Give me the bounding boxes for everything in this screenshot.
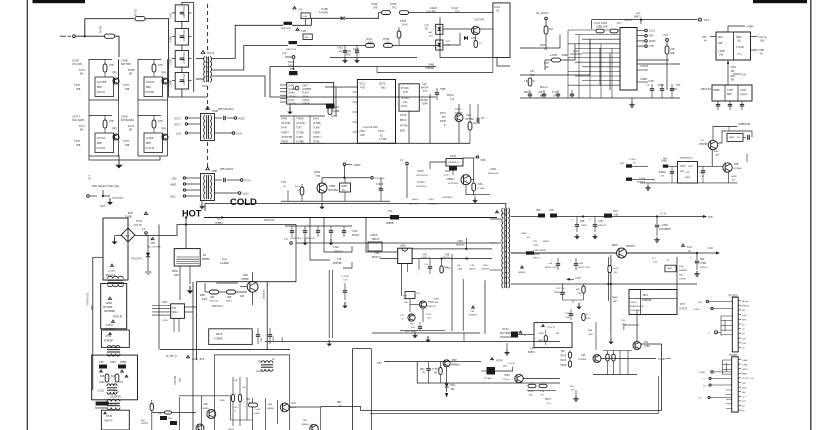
ic left network v5 bbox=[609, 53, 611, 90]
svg-text:BBB 4LBT: BBB 4LBT bbox=[281, 28, 292, 30]
transistor QF1 bbox=[317, 183, 339, 193]
bl labels2 bbox=[220, 400, 275, 415]
label PA8P bbox=[416, 170, 428, 177]
svg-text:BLPTBBB: BLPTBBB bbox=[405, 331, 415, 333]
svg-text:B4B6A: B4B6A bbox=[659, 171, 667, 174]
title block bar top-right bbox=[753, 0, 807, 3]
wire hot-cold corner bbox=[0, 0, 1, 1]
left rail bottom bbox=[91, 390, 100, 414]
M warn bbox=[681, 244, 692, 253]
svg-text:1TTB: 1TTB bbox=[432, 369, 438, 371]
bl horizontals bbox=[152, 396, 253, 420]
Q wire top bbox=[500, 335, 534, 338]
svg-text:A4C: A4C bbox=[435, 301, 440, 304]
svg-text:TBBBBBB BL: TBBBBBB BL bbox=[679, 158, 693, 160]
svg-text:NBPBBB 44: NBPBBB 44 bbox=[448, 162, 461, 164]
main H vrails bbox=[193, 282, 197, 430]
res L inner2 bbox=[432, 362, 442, 384]
cold box blob1 bbox=[99, 365, 126, 369]
svg-text:BB-BLC: BB-BLC bbox=[533, 258, 541, 260]
label GOLD small bbox=[113, 315, 123, 319]
svg-text:Tbd: Tbd bbox=[388, 210, 393, 213]
IC U401 box bbox=[620, 28, 637, 91]
svg-text:THBBT: THBBT bbox=[215, 222, 223, 225]
label R751 bbox=[134, 8, 138, 16]
gnd list1 bbox=[287, 104, 292, 114]
svg-text:APRL_BTB: APRL_BTB bbox=[192, 358, 205, 361]
svg-text:FUF1: FUF1 bbox=[494, 5, 501, 9]
P term L4BwP bbox=[693, 307, 732, 311]
svg-text:C4PB: C4PB bbox=[162, 320, 168, 322]
svg-text:4DB: 4DB bbox=[708, 216, 713, 219]
N label top bbox=[700, 88, 712, 91]
H lower box bbox=[209, 329, 253, 345]
small res pair q4 bbox=[474, 35, 482, 48]
svg-text:C1BB7: C1BB7 bbox=[640, 78, 648, 81]
relay labels bbox=[718, 36, 744, 57]
svg-text:DB2: DB2 bbox=[172, 177, 177, 180]
svg-text:1APJ: 1APJ bbox=[688, 165, 693, 168]
svg-text:C4T2T: C4T2T bbox=[72, 115, 80, 119]
fuse blob right2 bbox=[286, 41, 297, 51]
label PB4 bbox=[410, 324, 415, 330]
wire bl2 bbox=[0, 0, 1, 1]
svg-text:41V: 41V bbox=[742, 74, 747, 77]
svg-text:1BBB: 1BBB bbox=[581, 225, 587, 227]
core 1R bottom bbox=[256, 359, 275, 373]
K right tri bbox=[469, 306, 478, 317]
svg-text:TB4TBBA: TB4TBBA bbox=[328, 189, 339, 192]
M rail labels2 bbox=[612, 297, 618, 303]
terminal G top bbox=[475, 156, 487, 162]
svg-text:4BB: 4BB bbox=[718, 43, 723, 45]
U501 box bbox=[398, 245, 412, 264]
svg-text:B4B4B: B4B4B bbox=[469, 269, 476, 271]
svg-text:1R: 1R bbox=[258, 361, 261, 363]
cap stack right rail bbox=[182, 3, 194, 93]
svg-text:C457: C457 bbox=[169, 58, 173, 65]
bottom sub-box outline bbox=[214, 355, 290, 430]
svg-text:BBB: BBB bbox=[458, 269, 463, 271]
svg-text:H17D: H17D bbox=[378, 130, 385, 133]
svg-text:T4B: T4B bbox=[621, 320, 626, 322]
label 8411 bbox=[570, 50, 582, 54]
svg-text:14BPB: 14BPB bbox=[679, 279, 686, 281]
svg-text:L.B: L.B bbox=[524, 81, 528, 83]
svg-text:LBD: LBD bbox=[158, 413, 163, 415]
ground snubber bbox=[187, 286, 194, 294]
svg-text:BPPBBBBB: BPPBBBBB bbox=[95, 408, 108, 410]
svg-text:P7C: P7C bbox=[423, 90, 428, 93]
Q box mid bbox=[534, 323, 572, 348]
ground arrow cells bbox=[115, 155, 122, 168]
list1 labels col2 bbox=[302, 85, 312, 106]
list1 labels col1 bbox=[289, 85, 297, 106]
svg-text:4BBP: 4BBP bbox=[729, 137, 735, 139]
wire FU bottom stub bbox=[497, 58, 510, 66]
crb labels2 bbox=[401, 105, 408, 108]
label C7A1 K47B bbox=[594, 22, 608, 29]
label C4ZB right bbox=[488, 169, 499, 175]
BPC label bbox=[642, 294, 652, 302]
svg-text:Q2A: Q2A bbox=[112, 127, 117, 130]
wire VBT run bbox=[386, 361, 481, 363]
svg-text:AB2: AB2 bbox=[381, 87, 386, 90]
svg-text:BCBV: BCBV bbox=[528, 391, 534, 393]
transistor Q pump driver bbox=[593, 355, 601, 363]
svg-text:L1HE: L1HE bbox=[402, 25, 408, 27]
box2 caps below bbox=[716, 101, 744, 110]
terminal C18BP bbox=[343, 163, 361, 167]
relay col labels bbox=[730, 66, 737, 82]
label P44 bbox=[403, 299, 409, 305]
M gnd C4T bbox=[654, 237, 659, 242]
transistor Q44 bbox=[455, 114, 463, 122]
label LTBT bbox=[333, 258, 342, 265]
wire cell bus left bbox=[89, 59, 118, 115]
control box name bbox=[363, 125, 378, 129]
svg-text:BBBBB1: BBBBB1 bbox=[469, 315, 478, 317]
cold box labels bbox=[99, 376, 124, 384]
svg-text:40T AD: 40T AD bbox=[134, 224, 142, 227]
wire TPH1 left bot bbox=[196, 59, 204, 80]
svg-text:RT4B: RT4B bbox=[106, 415, 112, 418]
res D440 box bbox=[446, 159, 463, 167]
svg-text:S4BP: S4BP bbox=[521, 233, 527, 235]
svg-text:P4LLB4FB: P4LLB4FB bbox=[72, 119, 84, 122]
svg-text:78B4TH: 78B4TH bbox=[104, 421, 113, 423]
transistor bl2 bbox=[196, 424, 204, 430]
svg-text:R7B: R7B bbox=[109, 64, 114, 67]
label takam bbox=[409, 199, 439, 206]
svg-text:C4BB1A: C4BB1A bbox=[446, 178, 455, 181]
cap C9 left bbox=[148, 236, 161, 254]
wire F bottom bus bbox=[281, 201, 390, 209]
svg-text:C4BB: C4BB bbox=[329, 185, 336, 188]
J left col top bbox=[329, 269, 366, 271]
svg-text:B.BB: B.BB bbox=[565, 313, 570, 315]
IC right pin circles bbox=[637, 29, 647, 47]
wire R705 to cell bbox=[115, 36, 120, 57]
svg-text:4LB: 4LB bbox=[416, 293, 420, 295]
P header box lower bbox=[732, 357, 739, 412]
J left caps bbox=[342, 283, 347, 308]
diode box list2c bbox=[313, 118, 321, 144]
wire L mid down bbox=[446, 367, 448, 392]
relay right lead2 bbox=[751, 49, 765, 56]
svg-text:P44B: P44B bbox=[371, 3, 377, 6]
svg-text:4DR8: 4DR8 bbox=[649, 40, 656, 43]
svg-text:T.4B1: T.4B1 bbox=[730, 66, 737, 69]
transformer PHB1 box bbox=[201, 114, 215, 141]
svg-text:B4BP: B4BP bbox=[562, 54, 569, 57]
label W_IMP bbox=[166, 355, 177, 358]
svg-text:PBB 84LP: PBB 84LP bbox=[212, 306, 223, 308]
svg-text:(4TPB): (4TPB) bbox=[313, 122, 321, 125]
svg-text:C41B: C41B bbox=[740, 89, 746, 92]
label PHB1 bbox=[212, 109, 218, 113]
Q bottom dbl bus bbox=[361, 376, 662, 413]
wire U501 right mid bbox=[412, 257, 492, 259]
P pins right upper bbox=[738, 300, 750, 350]
label TAP left bbox=[162, 301, 168, 304]
label COLD bbox=[230, 197, 257, 208]
wire L bot right2 removed bbox=[0, 0, 1, 1]
svg-text:5T4B: 5T4B bbox=[333, 246, 339, 249]
transistor Q601 bbox=[612, 244, 635, 258]
svg-text:1M: 1M bbox=[496, 11, 499, 13]
wire standby top feed bbox=[85, 19, 134, 37]
label BHPA bbox=[447, 94, 455, 101]
M rails pair bbox=[608, 255, 611, 335]
label 1-W RC bbox=[424, 25, 429, 31]
label GET2NF bbox=[474, 19, 484, 22]
svg-text:C1 BLB: C1 BLB bbox=[507, 363, 515, 365]
Q left low wires bbox=[523, 378, 560, 380]
svg-text:JT44A: JT44A bbox=[289, 95, 297, 98]
svg-text:A7B1A: A7B1A bbox=[700, 266, 707, 269]
svg-text:Q2A: Q2A bbox=[161, 127, 166, 130]
svg-text:4BB: 4BB bbox=[734, 164, 739, 166]
svg-text:1e-: 1e- bbox=[701, 140, 705, 142]
svg-text:BC: BC bbox=[742, 406, 745, 408]
svg-text:4PT1: 4PT1 bbox=[680, 304, 686, 306]
cold box res1 bbox=[105, 374, 119, 382]
svg-text:L4BTBBBT: L4BTBBBT bbox=[442, 197, 454, 199]
svg-text:B4BBB: B4BBB bbox=[386, 223, 394, 225]
T601 left stubs bbox=[490, 219, 501, 270]
svg-text:1BB: 1BB bbox=[566, 317, 571, 319]
transformer PHB1 core bbox=[204, 115, 212, 139]
svg-text:B4B: B4B bbox=[400, 130, 405, 133]
H lower caps bbox=[256, 328, 272, 344]
crb chain stub bbox=[408, 111, 410, 143]
res R4T1 bbox=[550, 54, 569, 62]
svg-text:L4TBP: L4TBP bbox=[550, 54, 558, 57]
svg-text:BTBBTB: BTBBTB bbox=[427, 306, 436, 308]
svg-text:D440: D440 bbox=[450, 155, 457, 158]
svg-text:1TB: 1TB bbox=[337, 258, 342, 261]
label D448 PHRLPR bbox=[319, 8, 328, 14]
label TRLPBRBT bbox=[659, 225, 672, 231]
svg-text:BBP1: BBP1 bbox=[612, 244, 619, 247]
wire L top long bbox=[290, 337, 347, 339]
svg-text:C458: C458 bbox=[169, 80, 173, 87]
svg-text:LDL: LDL bbox=[303, 420, 308, 422]
svg-text:JC27O4: JC27O4 bbox=[97, 137, 106, 140]
res L inner1 bbox=[420, 362, 431, 384]
wire mains second run bbox=[300, 44, 366, 46]
svg-text:BBB: BBB bbox=[97, 143, 102, 145]
label CHLS bbox=[637, 65, 648, 70]
svg-text:R4B: R4B bbox=[588, 330, 593, 332]
M plus caps bbox=[571, 218, 587, 232]
svg-text:D1B: D1B bbox=[471, 38, 476, 40]
svg-text:PH7B2: PH7B2 bbox=[400, 124, 409, 127]
svg-text:B4HB4NB2: B4HB4NB2 bbox=[121, 119, 134, 122]
svg-text:1 TB1: 1 TB1 bbox=[501, 214, 508, 216]
svg-text:84TT: 84TT bbox=[440, 112, 446, 115]
warn triangle TPH1 bbox=[201, 51, 205, 54]
wire L right to PT bbox=[0, 0, 1, 1]
P stair lower bbox=[723, 360, 732, 375]
svg-text:Q2A: Q2A bbox=[161, 71, 166, 74]
labels bottom mid bbox=[228, 380, 246, 430]
svg-text:C-B: C-B bbox=[282, 52, 287, 55]
core xfmr D3 bbox=[107, 399, 120, 409]
M bpc bottom stub bbox=[608, 335, 613, 344]
svg-text:+ 47BB: + 47BB bbox=[660, 225, 668, 227]
svg-text:PC: PC bbox=[742, 348, 745, 350]
relay right lead bbox=[751, 36, 768, 43]
snubber box hatch bbox=[177, 257, 200, 264]
svg-text:C4B: C4B bbox=[538, 92, 543, 94]
svg-text:Bdul: Bdul bbox=[718, 36, 723, 39]
svg-text:B1BB: B1BB bbox=[273, 336, 275, 342]
PHB2 left terms bbox=[183, 177, 185, 197]
svg-text:L4AB: L4AB bbox=[742, 363, 748, 366]
label 4TB bbox=[421, 255, 431, 260]
label RH1B bbox=[344, 50, 351, 57]
svg-text:BBB: BBB bbox=[727, 94, 732, 96]
svg-text:PBbOg: PBbOg bbox=[742, 306, 750, 308]
P stair upper bbox=[721, 316, 732, 336]
svg-text:R7B: R7B bbox=[158, 64, 163, 67]
svg-text:B4K: B4K bbox=[613, 301, 618, 303]
wire right1 cont bbox=[292, 24, 311, 26]
svg-text:PBR: PBR bbox=[290, 68, 295, 71]
transistor C4D bbox=[280, 403, 297, 412]
warn triangle PHB1 bbox=[206, 107, 210, 110]
svg-text:1BB: 1BB bbox=[168, 418, 173, 420]
transistor Q901 bbox=[240, 281, 258, 298]
Q gnd left bbox=[504, 343, 509, 355]
cap far right c bbox=[477, 104, 484, 122]
wire Q901 net bbox=[240, 272, 253, 305]
svg-text:BBBB: BBBB bbox=[543, 241, 549, 243]
label I C1b bbox=[372, 250, 381, 262]
J right labels bbox=[457, 265, 490, 271]
M under284 gnd bbox=[563, 300, 584, 309]
Q low labels2 bbox=[545, 399, 552, 405]
transformer PHB2 box bbox=[201, 174, 215, 201]
svg-text:B4B: B4B bbox=[261, 337, 263, 342]
svg-text:NBBBB: NBBBB bbox=[267, 408, 275, 410]
left rail transfo bbox=[93, 257, 103, 390]
svg-text:PQTBM: PQTBM bbox=[146, 91, 155, 94]
svg-text:JC2705B: JC2705B bbox=[97, 81, 107, 84]
svg-text:1LC: 1LC bbox=[355, 53, 359, 55]
svg-text:BBBBP: BBBBP bbox=[202, 258, 210, 261]
bottom verticals mid bbox=[231, 377, 247, 426]
wire I main top bbox=[296, 218, 497, 244]
O wire2 bbox=[668, 165, 677, 167]
diode D405 top bbox=[288, 60, 295, 71]
svg-text:34Bu: 34Bu bbox=[478, 184, 484, 186]
svg-text:84PB: 84PB bbox=[440, 120, 446, 123]
svg-text:GOLD: GOLD bbox=[113, 315, 123, 319]
svg-text:4BBB1: 4BBB1 bbox=[670, 89, 678, 91]
svg-text:KB17: KB17 bbox=[360, 130, 367, 133]
diode box list2b bbox=[296, 118, 305, 144]
label D440 bbox=[450, 155, 457, 158]
svg-text:BBBB: BBBB bbox=[612, 297, 618, 299]
label BHT THBBL bbox=[125, 212, 148, 219]
svg-text:P4BB: P4BB bbox=[120, 361, 127, 364]
svg-text:C7A: C7A bbox=[298, 9, 303, 12]
svg-text:R711: R711 bbox=[79, 125, 85, 128]
transistor LDL bbox=[301, 420, 318, 430]
wire ic top right up bbox=[640, 19, 642, 25]
label vertical WADJ bbox=[175, 375, 182, 385]
svg-text:BLK: BLK bbox=[614, 272, 619, 274]
wire uc right bbox=[184, 307, 196, 312]
svg-text:C4BB BBBBT: C4BB BBBBT bbox=[533, 250, 547, 252]
I second bus bbox=[310, 243, 330, 260]
ic bottom bus gnd bbox=[629, 98, 634, 107]
svg-text:C703,R67: C703,R67 bbox=[112, 197, 124, 200]
N label mid bbox=[746, 154, 748, 162]
label C4PA bbox=[352, 230, 360, 237]
svg-text:CH6LB: CH6LB bbox=[640, 65, 648, 68]
PHB1 right lead1 bbox=[215, 116, 246, 121]
svg-text:JTB: JTB bbox=[533, 241, 537, 243]
svg-text:BLPTB4BB: BLPTB4BB bbox=[500, 333, 512, 335]
svg-text:Bdae: Bdae bbox=[742, 387, 748, 389]
svg-text:BB1R: BB1R bbox=[400, 119, 407, 122]
svg-text:PBTBTB: PBTBTB bbox=[626, 246, 635, 248]
main box3 bbox=[101, 330, 129, 347]
svg-text:BBPB: BBPB bbox=[631, 302, 637, 304]
svg-text:PH14D: PH14D bbox=[401, 97, 409, 100]
svg-text:TBLL8-PT1: TBLL8-PT1 bbox=[131, 259, 143, 261]
svg-text:11BBBB1: 11BBBB1 bbox=[481, 269, 490, 271]
res SA chain bbox=[544, 26, 554, 48]
svg-text:L41B: L41B bbox=[575, 278, 581, 280]
svg-text:C4ZB: C4ZB bbox=[490, 169, 496, 171]
relay col label2 bbox=[733, 74, 747, 77]
wire lower return bbox=[270, 67, 436, 98]
svg-text:TH6: TH6 bbox=[676, 85, 681, 87]
labels box2 bbox=[103, 297, 115, 313]
terminal VBT bbox=[377, 362, 388, 366]
svg-text:KT7B: KT7B bbox=[74, 140, 80, 143]
terminal C-B bbox=[282, 52, 295, 58]
svg-text:CP: CP bbox=[142, 228, 146, 231]
svg-text:FB4: FB4 bbox=[702, 36, 707, 39]
box2 labels bbox=[714, 89, 748, 96]
svg-text:D4B: D4B bbox=[445, 255, 450, 257]
svg-text:1BB: 1BB bbox=[125, 89, 130, 91]
M caps under bus bbox=[545, 258, 560, 270]
label HOT bbox=[182, 209, 202, 219]
cold box core bbox=[107, 384, 117, 394]
svg-text:PH1B: PH1B bbox=[383, 38, 390, 41]
svg-text:BLTBBY: BLTBBY bbox=[484, 378, 493, 380]
svg-text:P4B4: P4B4 bbox=[99, 382, 105, 384]
svg-text:PPI2LTPL: PPI2LTPL bbox=[264, 219, 275, 222]
circle bottom left2 bbox=[0, 0, 1, 1]
Q pump right wire bbox=[641, 343, 662, 345]
J left gnd2 bbox=[327, 340, 332, 346]
svg-text:14B: 14B bbox=[581, 355, 586, 357]
wire I step bbox=[365, 218, 367, 253]
svg-text:(A.udg: (A.udg bbox=[742, 300, 749, 303]
ic left network v2 bbox=[545, 44, 575, 70]
big bottom wire removed bbox=[0, 0, 1, 1]
M top wire bbox=[511, 216, 604, 218]
svg-text:HOB1: HOB1 bbox=[238, 117, 245, 120]
